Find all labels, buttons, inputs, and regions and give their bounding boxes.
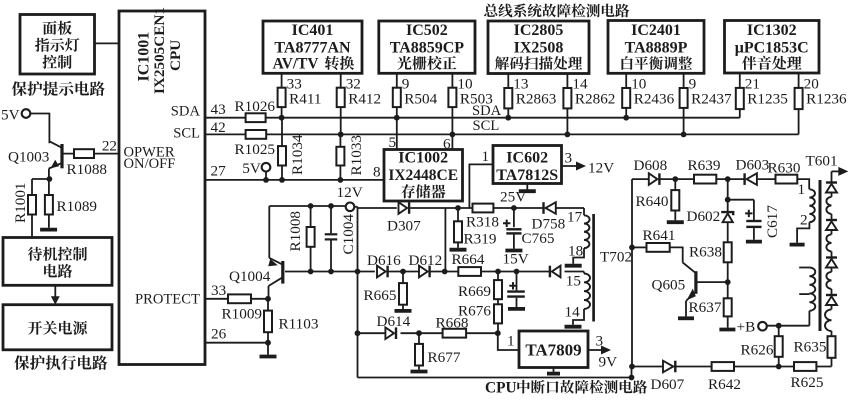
IC U2805 (IC2805 IX2508 decode scan) (488, 21, 589, 74)
svg-text:15V: 15V (503, 251, 529, 268)
svg-text:CPU: CPU (167, 40, 184, 71)
node D602 column top (725, 176, 731, 182)
node 12V-vert/15V rail (355, 269, 361, 275)
wire right vertical from D608 line to bottom (631, 179, 633, 366)
svg-text:1: 1 (482, 148, 490, 165)
node Q605 base junction (725, 279, 731, 285)
svg-text:R1026: R1026 (235, 98, 276, 115)
svg-text:TA7812S: TA7812S (496, 167, 558, 184)
wire D607 bottom rail (632, 366, 832, 368)
wire R2862 to bus (566, 108, 568, 134)
resistor R1089 (48, 179, 50, 195)
IC U1001 (IC1001 IX2505CEN1 CPU main block) (119, 11, 205, 365)
svg-text:3: 3 (565, 150, 573, 167)
svg-text:R635: R635 (794, 338, 827, 355)
wire pin33 line (205, 298, 268, 300)
wire R2436 to bus (625, 108, 627, 118)
svg-text:R1088: R1088 (67, 161, 108, 178)
svg-text:R1033: R1033 (348, 135, 365, 176)
resistor R2436 (622, 88, 630, 108)
svg-text:C617: C617 (764, 205, 781, 238)
node R676/pin1 (495, 330, 501, 336)
wire pin 10 of column R2436 (625, 73, 627, 88)
core T702 (592, 214, 595, 322)
resistor R2437 (680, 88, 688, 108)
wire to T702 pin17 (583, 208, 585, 215)
svg-text:6: 6 (443, 135, 451, 152)
resistor R640 (674, 179, 676, 190)
svg-text:Q1004: Q1004 (229, 268, 271, 285)
svg-text:T702: T702 (600, 249, 632, 266)
svg-text:SDA: SDA (171, 104, 201, 120)
node vert/D614 row (355, 330, 361, 336)
resistor R2862 (563, 88, 571, 108)
wire 12V terminal to down-vertical (354, 206, 357, 208)
node junction R503/bus (450, 132, 456, 138)
svg-text:R503: R503 (460, 90, 493, 107)
node junction R2437/bus (681, 132, 687, 138)
ground pin18 (565, 264, 582, 268)
wire base Q1003 to CPU pin22 (62, 153, 119, 155)
resistor R638 (724, 242, 732, 262)
capacitor C617 (electrolytic) (728, 199, 754, 201)
svg-text:43: 43 (211, 101, 226, 118)
node junction R504/bus (394, 115, 400, 121)
svg-text:IC2401: IC2401 (631, 22, 681, 39)
node C617 branch (725, 197, 731, 203)
svg-text:SCL: SCL (473, 118, 500, 134)
wire pin 9 of column R504 (396, 73, 398, 87)
ground below R319 (450, 248, 467, 252)
node R665 top (400, 269, 406, 275)
node R626 bottom (776, 364, 782, 370)
resistor R626 (778, 326, 780, 337)
svg-text:R319: R319 (464, 230, 497, 247)
svg-text:R637: R637 (689, 299, 722, 316)
svg-text:5V: 5V (242, 160, 261, 177)
svg-text:R2436: R2436 (634, 90, 675, 107)
svg-text:C1004: C1004 (340, 214, 357, 255)
wire 25V line from 12V vertical (358, 207, 397, 209)
resistor R637 (724, 298, 732, 316)
wire 5V to Q1003 collector (30, 114, 49, 144)
ground TA7809 (553, 368, 555, 372)
svg-text:R1034: R1034 (289, 134, 306, 175)
transistor Q1003 (60, 144, 63, 168)
ground below C617 (746, 240, 762, 244)
resistor R1034 (278, 146, 286, 165)
wire R504 to bus (396, 107, 398, 149)
wire vertical 25V to 15V rail (444, 208, 446, 272)
resistor R668 (443, 329, 467, 338)
arrow IC602 pin3 output (562, 165, 579, 167)
resistor R665 (402, 272, 404, 284)
svg-text:R669: R669 (458, 283, 491, 300)
svg-text:5: 5 (389, 134, 397, 151)
svg-text:R2862: R2862 (575, 90, 616, 107)
resistor R1088 (74, 149, 94, 158)
diode HV2 (826, 219, 837, 221)
resistor R318 (473, 204, 494, 213)
svg-text:R641: R641 (643, 227, 676, 244)
svg-text:R1008: R1008 (287, 211, 304, 252)
node junction R2862/bus (565, 132, 571, 138)
svg-text:+B: +B (737, 319, 756, 336)
wire R2437 to bus (683, 108, 685, 134)
svg-text:26: 26 (211, 325, 227, 342)
svg-text:42: 42 (211, 119, 226, 136)
IC U1302 (IC1302 uPC1853C sound) (725, 21, 820, 74)
node junction R411/bus (279, 115, 285, 121)
wire IC602 pin1 to 25V line (469, 164, 493, 207)
box panel-indicator-control (面板指示灯控制) (20, 15, 95, 75)
svg-text:IX2448CE: IX2448CE (388, 167, 458, 184)
resistor R1008 (310, 206, 312, 227)
resistor R1103 (267, 299, 269, 311)
resistor R504 (393, 88, 401, 107)
svg-text:IC1002: IC1002 (398, 150, 448, 167)
svg-text:17: 17 (567, 209, 583, 226)
svg-text:IX2508: IX2508 (514, 39, 564, 56)
svg-text:IC1001: IC1001 (136, 32, 153, 82)
diode HV1 (826, 181, 837, 183)
IC U1002 (IC1002 IX2448CE memory) (384, 150, 463, 202)
diode D614 (385, 327, 394, 339)
wire pin14 to ground (573, 309, 584, 325)
wire R630 to T601 pin1 (797, 179, 809, 189)
wire pin26 line (205, 342, 268, 344)
wire panel box to CPU (95, 42, 120, 44)
wire R1236 to bus (798, 109, 800, 134)
resistor R1033 (336, 147, 344, 166)
resistor R669 (497, 272, 499, 281)
T601 winding 2 (809, 268, 815, 311)
resistor R1235 (736, 88, 744, 109)
diode D608 (649, 173, 658, 185)
diode D616 (377, 266, 386, 278)
svg-text:TA8859CP: TA8859CP (390, 39, 465, 56)
resistor R1236 (795, 88, 803, 109)
wire pin18 to ground (573, 248, 584, 264)
arrow HV output (832, 170, 841, 172)
box standby-control (待机控制电路) (3, 238, 112, 286)
svg-text:R664: R664 (452, 251, 485, 268)
arrow TA7809 output (588, 349, 603, 351)
ground IC602 (526, 184, 528, 190)
IC U401 (IC401 TA8777AN AV/TV converter) (263, 21, 362, 73)
svg-text:R412: R412 (348, 90, 381, 107)
wire SDA bus line (205, 117, 740, 119)
core T601 (819, 180, 822, 331)
node cap top (514, 269, 520, 275)
arrow standby to switching-psu (54, 285, 56, 297)
svg-text:2: 2 (800, 212, 808, 229)
svg-text:C765: C765 (522, 230, 555, 247)
svg-text:R1235: R1235 (747, 90, 788, 107)
node R669 top (495, 269, 501, 275)
column D602 R638 R637 (727, 179, 729, 211)
svg-text:D607: D607 (651, 376, 685, 393)
node R640 top (672, 176, 678, 182)
label 保护执行电路 (14, 355, 107, 370)
svg-text:D616: D616 (367, 252, 401, 269)
svg-text:R1009: R1009 (222, 306, 263, 323)
diode D603 (743, 173, 745, 185)
node R677 top (416, 330, 422, 336)
wire R411 to bus (281, 107, 283, 118)
svg-text:D307: D307 (387, 218, 421, 235)
ground below R677 (411, 370, 428, 374)
wire pin 20 of column R1236 (798, 73, 800, 88)
label 保护提示电路 (12, 81, 105, 96)
IC U502 (IC502 TA8859CP raster correction) (379, 21, 475, 73)
svg-text:14: 14 (565, 304, 581, 321)
svg-text:IC1302: IC1302 (747, 22, 797, 39)
svg-text:1: 1 (507, 333, 515, 350)
svg-text:R626: R626 (741, 342, 774, 359)
wire pin 9 of column R2437 (683, 73, 685, 88)
resistor R2863 (504, 88, 512, 108)
resistor R1001 (28, 195, 36, 215)
diode D613 (to T702 pin15) (549, 266, 551, 278)
svg-text:R411: R411 (289, 90, 321, 107)
node junction R412/bus (338, 132, 344, 138)
diode D607 (663, 361, 673, 373)
node junction below Q1003 (47, 176, 53, 182)
zener diode D602 (721, 212, 733, 215)
svg-text:T601: T601 (806, 153, 838, 170)
wire 15V rail (358, 271, 375, 273)
svg-text:R665: R665 (364, 287, 397, 304)
resistor R1026 (on SDA) (246, 113, 266, 122)
label title 总线系统故障检测电路 (484, 4, 629, 18)
T601 winding 1 (809, 189, 815, 222)
svg-text:AV/TV: AV/TV (273, 56, 319, 73)
svg-text:1: 1 (798, 181, 806, 198)
wire pin 10 of column R503 (451, 73, 453, 87)
node R641/vertical (629, 245, 635, 251)
svg-text:TA8889P: TA8889P (625, 39, 688, 56)
wire pin 33 of column R411 (281, 73, 283, 87)
wire R2863 to bus (507, 108, 509, 117)
winding T702 pins 17-18 (584, 215, 590, 248)
wire R503 to bus (451, 107, 453, 149)
wire pin1 to TA7809 (498, 333, 519, 350)
wire Q1004 base to 15V rail (285, 271, 358, 273)
svg-text:IC502: IC502 (406, 22, 448, 39)
svg-text:PROTECT: PROTECT (135, 292, 200, 308)
svg-text:R1025: R1025 (235, 141, 276, 158)
IC U801 (TA7809 regulator) (519, 331, 588, 368)
svg-text:R1089: R1089 (57, 198, 98, 215)
wire SCL bus line (205, 133, 799, 135)
ground pin14 (565, 325, 582, 329)
svg-text:R668: R668 (436, 315, 469, 332)
wire R412 to bus (340, 107, 342, 134)
svg-text:D602: D602 (687, 208, 721, 225)
resistor R642 (712, 362, 734, 371)
resistor R625 (794, 362, 816, 371)
diode HV3 (826, 256, 837, 258)
capacitor C1004 (330, 206, 332, 233)
resistor R411 (278, 88, 286, 107)
node R1034/pin27 line (279, 177, 285, 183)
resistor R503 (448, 88, 456, 107)
svg-text:R2863: R2863 (516, 90, 557, 107)
resistor R630 (776, 175, 798, 184)
svg-text:CPU: CPU (485, 379, 517, 395)
resistor R641 (647, 243, 670, 252)
svg-text:12V: 12V (337, 184, 363, 201)
node R626 top (776, 323, 782, 329)
transistor Q605 (NPN) (694, 271, 697, 294)
ground below R665 (395, 309, 412, 313)
svg-text:R504: R504 (404, 90, 437, 107)
node junction R2436/bus (623, 115, 629, 121)
svg-text:9V: 9V (599, 353, 618, 370)
node Q1004 collector junction (265, 296, 271, 302)
svg-text:15: 15 (566, 273, 581, 290)
wire winding2 tap stub (799, 293, 809, 295)
svg-text:R2437: R2437 (691, 90, 732, 107)
svg-text:12V: 12V (588, 160, 614, 177)
svg-text:25V: 25V (500, 188, 526, 205)
diode HV4 (826, 294, 837, 296)
svg-text:ON/OFF: ON/OFF (124, 156, 176, 172)
svg-text:IX2505CEN1: IX2505CEN1 (151, 7, 168, 94)
wire pin 13 of column R2863 (507, 74, 509, 89)
svg-text:R677: R677 (428, 349, 461, 366)
wire pin27 line (5V) to IC1002 pin8 (205, 179, 384, 181)
svg-text:R630: R630 (768, 159, 801, 176)
svg-text:R1001: R1001 (12, 182, 29, 223)
wire R1235 to bus (739, 109, 741, 118)
ground below R1103 (260, 355, 277, 359)
ground Q605 emitter (678, 316, 694, 320)
diode D758 (542, 202, 544, 214)
node R1008 top (308, 203, 314, 209)
svg-text:IC602: IC602 (506, 150, 548, 167)
plus cap (509, 282, 516, 289)
wire D614 row (358, 332, 386, 334)
resistor R412 (337, 88, 345, 107)
transistor Q1004 (PNP) (268, 206, 270, 258)
node bottom line corner (629, 375, 635, 381)
svg-text:IC2805: IC2805 (514, 22, 564, 39)
diode D612 (419, 266, 428, 278)
svg-text:TA8777AN: TA8777AN (274, 39, 351, 56)
wire 12V rail (269, 205, 345, 207)
svg-text:IC401: IC401 (292, 22, 334, 39)
wire bottom rail corner to R635 (831, 358, 833, 367)
svg-text:D612: D612 (409, 252, 443, 269)
svg-text:μPC1853C: μPC1853C (735, 39, 809, 56)
svg-text:R625: R625 (791, 374, 824, 391)
resistor R677 (418, 333, 420, 344)
node 25V-vert/15V rail (442, 269, 448, 275)
node R1008 bottom (308, 269, 314, 275)
resistor R635 (828, 336, 836, 358)
svg-text:TA7809: TA7809 (525, 341, 581, 360)
ground T601 pin2 (790, 243, 805, 247)
svg-text:R318: R318 (466, 213, 499, 230)
node pin26 junction (265, 340, 271, 346)
diode D307 (399, 202, 408, 214)
svg-text:R1103: R1103 (279, 316, 319, 333)
capacitor C below 15V rail (electrolytic) (516, 272, 518, 291)
wire pin 32 of column R412 (340, 73, 342, 87)
wire Q605 base to R638/R637 node (697, 281, 728, 283)
node C1004 top (328, 203, 334, 209)
svg-text:Q1003: Q1003 (8, 149, 49, 166)
svg-text:D614: D614 (377, 313, 411, 330)
IC U602 (IC602 TA7812S regulator) (493, 146, 562, 184)
winding T702 pins 15-14 (583, 272, 585, 274)
svg-text:Q605: Q605 (652, 276, 686, 293)
wire pin2 to ground (797, 222, 809, 243)
svg-text:R638: R638 (689, 244, 722, 261)
ground below C765 (505, 249, 522, 253)
svg-text:D758: D758 (532, 216, 566, 233)
wire pin 21 of column R1235 (739, 73, 741, 88)
resistor R319 (457, 208, 459, 221)
node C1004 bottom (328, 269, 334, 275)
ground below R640 (667, 220, 684, 224)
node junction R2863/bus (505, 115, 511, 121)
resistor R1025 (on SCL) (246, 130, 267, 139)
capacitor C765 (electrolytic) (513, 208, 515, 227)
ground below R1089 (40, 228, 57, 232)
wire D608 row (632, 178, 649, 180)
svg-text:33: 33 (211, 282, 226, 299)
box switching-power-supply (开关电源) (3, 305, 112, 350)
svg-text:R639: R639 (688, 157, 721, 174)
resistor R676 (497, 299, 499, 304)
svg-text:R1236: R1236 (806, 90, 847, 107)
plus C765 (503, 220, 510, 227)
resistor R1009 (228, 294, 251, 303)
resistor R639 (694, 175, 716, 184)
svg-text:SCL: SCL (173, 126, 200, 142)
node C765 top (511, 205, 517, 211)
svg-text:8: 8 (373, 163, 381, 180)
node vertical/bottom rail (629, 364, 635, 370)
svg-text:D603: D603 (736, 156, 770, 173)
wire pin 14 of column R2862 (566, 74, 568, 89)
svg-text:22: 22 (102, 138, 117, 155)
wire vertical 12V node down to 15V rail and bottom (357, 207, 359, 378)
plus C617 (745, 210, 752, 217)
IC U2401 (IC2401 TA8889P white balance) (608, 21, 704, 74)
svg-text:27: 27 (211, 162, 227, 179)
wire winding2 top stub (799, 267, 809, 269)
node 12V terminal circle (346, 203, 355, 212)
resistor R664 (458, 267, 481, 276)
wire +B to T601 winding2 (767, 325, 810, 327)
node R319 top (455, 205, 461, 211)
ground below R637 (719, 328, 735, 332)
svg-text:D608: D608 (634, 157, 668, 174)
svg-text:R642: R642 (708, 376, 741, 393)
svg-text:R640: R640 (636, 193, 669, 210)
svg-text:5V: 5V (1, 107, 20, 124)
ground below cap (508, 307, 525, 311)
wire R641 to Q605 collector (670, 247, 683, 262)
wire bottom return line (358, 377, 632, 379)
node R1033/pin27 line (338, 177, 344, 183)
